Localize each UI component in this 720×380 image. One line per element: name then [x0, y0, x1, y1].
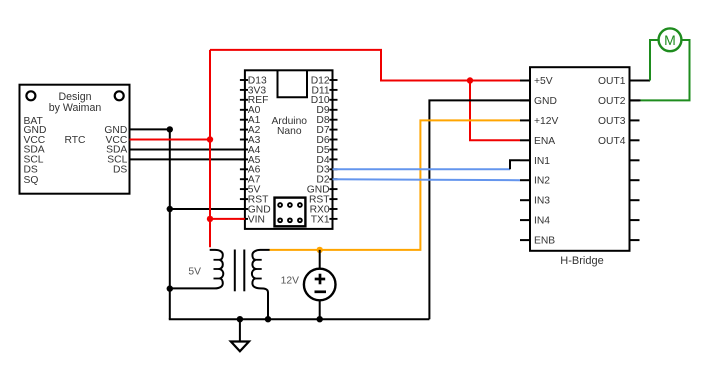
- orange +12V net: [270, 120, 521, 250]
- svg-text:by Waiman: by Waiman: [49, 102, 102, 114]
- ground symbol triangle: [231, 342, 249, 352]
- junction orange 12V source: [317, 247, 323, 253]
- green wire OUT1 to motor: [650, 40, 659, 81]
- blue wire Arduino D2 to IN2: [333, 179, 521, 180]
- wire RTC SDA to Arduino A4: [130, 149, 245, 151]
- ground symbol stem: [239, 319, 241, 341]
- junction 12V source bottom: [317, 316, 323, 322]
- ground bus bottom wire: [169, 318, 430, 320]
- Arduino left pin ticks: [240, 80, 248, 219]
- junction Arduino GND: [167, 206, 173, 212]
- transformer core lines: [234, 250, 236, 292]
- red wire to ENA: [470, 81, 520, 141]
- wire Arduino VIN red: [210, 218, 245, 220]
- svg-text:ENA: ENA: [534, 136, 555, 147]
- junction transformer primary bottom: [167, 285, 173, 291]
- transformer T1 primary coil: [170, 250, 223, 289]
- svg-text:5V: 5V: [188, 267, 201, 278]
- RTC title text: [49, 91, 102, 114]
- 12V source minus sign: [315, 290, 327, 293]
- H-Bridge left pin ticks: [520, 81, 531, 241]
- svg-text:H-Bridge: H-Bridge: [560, 255, 603, 267]
- wire H-Bridge OUT2 black stub: [629, 99, 641, 101]
- svg-text:OUT2: OUT2: [598, 96, 626, 107]
- Arduino USB connector notch: [278, 70, 308, 97]
- blue wire Arduino D3: [333, 168, 511, 170]
- svg-text:IN3: IN3: [534, 196, 550, 207]
- svg-text:VIN: VIN: [248, 214, 265, 225]
- junction red +5V/ENA: [467, 77, 473, 83]
- motor M1 circle: [659, 28, 682, 51]
- junction secondary bottom: [265, 316, 271, 322]
- H-Bridge U3 box: [530, 67, 630, 251]
- RTC mounting hole right: [115, 91, 124, 100]
- RTC mounting hole left: [26, 91, 35, 100]
- wire H-Bridge GND to ground bus: [429, 100, 530, 319]
- black jog D3 to IN1: [510, 160, 520, 169]
- transformer primary notch ticks: [214, 260, 220, 279]
- wire H-Bridge OUT1 black stub: [629, 80, 651, 82]
- 5V red net vertical: [209, 50, 211, 247]
- Arduino left pin labels: [248, 75, 271, 225]
- svg-text:SQ: SQ: [24, 175, 39, 186]
- junction RTC GND: [167, 126, 173, 132]
- wire RTC SCL to Arduino A5: [130, 158, 245, 160]
- junction ground: [237, 316, 243, 322]
- RTC module U1 box: [20, 85, 130, 194]
- svg-text:GND: GND: [534, 96, 557, 107]
- transformer secondary notch ticks: [256, 260, 262, 279]
- svg-text:12V: 12V: [281, 275, 299, 286]
- H-Bridge right pin ticks: [629, 81, 640, 241]
- svg-text:+12V: +12V: [534, 116, 558, 127]
- Arduino right pin labels: [307, 75, 331, 225]
- Arduino name label: [272, 116, 308, 137]
- 5V red net: RTC VCC wire: [130, 139, 211, 141]
- Arduino ICSP header: [275, 198, 306, 227]
- ICSP pin dots: [278, 203, 302, 222]
- svg-text:DS: DS: [113, 164, 127, 175]
- svg-text:+5V: +5V: [534, 76, 553, 87]
- svg-text:DS: DS: [24, 164, 38, 175]
- svg-text:TX1: TX1: [311, 214, 330, 225]
- Arduino Nano U2 box: [245, 70, 333, 229]
- 12V source V1 circle: [304, 269, 336, 301]
- junction red RTC VCC: [207, 136, 213, 142]
- 5V red net top horizontal: [210, 50, 520, 81]
- RTC left pin labels: [24, 116, 47, 186]
- svg-text:M: M: [664, 32, 676, 48]
- junction red VIN: [207, 216, 213, 222]
- H-Bridge left pin labels: [534, 76, 558, 247]
- transformer T1 secondary coil: [252, 250, 270, 319]
- ground net vertical wire: [169, 129, 171, 319]
- RTC right pin labels: [104, 125, 127, 175]
- svg-text:IN2: IN2: [534, 176, 550, 187]
- wire Arduino GND to ground net: [170, 208, 245, 210]
- H-Bridge right pin labels: [598, 76, 626, 147]
- 12V source plus sign: [315, 274, 326, 285]
- svg-text:IN1: IN1: [534, 156, 550, 167]
- Arduino right pin ticks: [329, 80, 337, 219]
- svg-text:ENB: ENB: [534, 236, 555, 247]
- svg-text:OUT1: OUT1: [598, 76, 626, 87]
- svg-text:OUT3: OUT3: [598, 116, 626, 127]
- green wire OUT2 to motor: [641, 40, 690, 100]
- svg-text:Nano: Nano: [277, 126, 302, 137]
- svg-text:IN4: IN4: [534, 216, 550, 227]
- 12V source V1 top terminal: [319, 250, 321, 269]
- 12V source bottom terminal: [319, 300, 321, 319]
- wire RTC GND to ground net: [130, 128, 170, 130]
- svg-text:OUT4: OUT4: [598, 136, 626, 147]
- svg-text:RTC: RTC: [65, 135, 87, 146]
